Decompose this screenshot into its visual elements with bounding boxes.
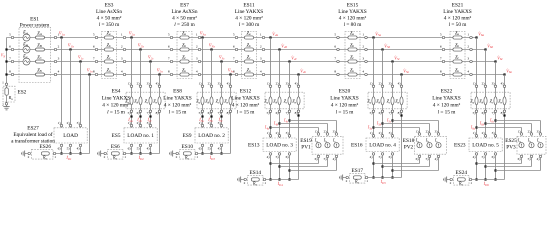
node V4a junction on line A (269, 36, 271, 38)
svg-text:1: 1 (121, 32, 123, 36)
svg-text:7): 7) (147, 111, 150, 115)
impedance Zn of ES20 (400, 97, 403, 105)
svg-text:ES10: ES10 (182, 144, 194, 150)
pin 5 of PV3 (bottom) (530, 155, 533, 158)
svg-text:6: 6 (168, 44, 170, 48)
svg-text:PV3: PV3 (506, 145, 516, 151)
node V1b junction on line B (69, 48, 71, 50)
svg-text:6): 6) (128, 146, 131, 150)
svg-text:İD5: İD5 (380, 179, 387, 185)
resistor Ru of ES2 (5, 88, 8, 95)
pin 5 of PV1 (bottom) (326, 155, 329, 158)
ground of ES24 (447, 179, 449, 181)
wire bottom neutral line of tap 1 (55, 153, 90, 155)
svg-text:1): 1) (518, 129, 521, 133)
node current I6c on drop C (494, 119, 496, 121)
pin 3 of ES11 (262, 60, 265, 63)
node V1c junction on line C (79, 60, 81, 62)
junction rail - line B (5, 48, 7, 50)
wire bus line A (7, 37, 477, 39)
svg-text:1): 1) (58, 121, 61, 125)
pin 2 of ES11 (262, 48, 265, 51)
svg-text:Żc: Żc (247, 54, 251, 60)
pin 1 of ES6 (123, 152, 126, 155)
svg-text:V̇4b: V̇4b (281, 43, 287, 49)
node V1a junction on line A (60, 36, 62, 38)
pin 7 of ES3 (95, 60, 98, 63)
pin 1 of load (top) (372, 135, 375, 138)
svg-text:1): 1) (128, 82, 131, 86)
svg-text:V̇3b: V̇3b (209, 43, 215, 49)
svg-text:4): 4) (295, 82, 298, 86)
pin 5 of load (bottom) (210, 144, 213, 147)
node current I3c on drop C (220, 115, 222, 117)
wire neutral drop of tap 3 (230, 75, 232, 154)
wire bottom neutral line of tap 5 (367, 177, 402, 179)
svg-text:2: 2 (28, 155, 30, 159)
svg-text:ĖA: ĖA (22, 30, 28, 36)
svg-text:2): 2) (67, 121, 70, 125)
wire phase A drop of tap 2 (131, 38, 133, 128)
svg-text:6): 6) (286, 155, 289, 159)
svg-text:ŻB: ŻB (37, 42, 41, 48)
svg-text:8: 8 (9, 70, 11, 74)
svg-text:Line YAKXS: Line YAKXS (163, 96, 192, 102)
impedance Zb of ES15 (348, 48, 357, 51)
pin 6 of load (bottom) (201, 144, 204, 147)
svg-text:3): 3) (537, 129, 540, 133)
pin 4 of load (bottom) (220, 144, 223, 147)
svg-text:2): 2) (137, 121, 140, 125)
pin 1 of PV1 (top) (317, 133, 320, 136)
wire load pin to bottom line (289, 155, 291, 180)
pin 4 of ES3 (123, 73, 126, 76)
svg-text:2: 2 (450, 181, 452, 185)
pin 2 of load (top) (69, 124, 72, 127)
svg-text:l = 15 m: l = 15 m (438, 109, 457, 115)
svg-text:1: 1 (196, 155, 198, 159)
svg-text:4 × 120 mm²: 4 × 120 mm² (339, 16, 367, 22)
pin 7 of ES21 (442, 60, 445, 63)
svg-text:Żn: Żn (182, 67, 186, 73)
impedance Zb of ES20 (381, 97, 384, 105)
current source Ib of PV2 (427, 143, 432, 148)
svg-text:l = 15 m: l = 15 m (237, 109, 256, 115)
svg-text:l = 80 m: l = 80 m (344, 22, 363, 28)
pin 5 of load (bottom) (139, 144, 142, 147)
svg-text:2: 2 (346, 179, 348, 183)
svg-text:ŻN: ŻN (37, 67, 42, 73)
svg-text:4): 4) (147, 146, 150, 150)
wire ES26 to ground (26, 153, 28, 155)
svg-text:Line YAKXS: Line YAKXS (235, 9, 264, 15)
impedance Za of ES12 (269, 97, 272, 105)
svg-text:1): 1) (473, 82, 476, 86)
svg-text:8): 8) (501, 111, 504, 115)
pin 3 of ES1 (54, 60, 57, 63)
svg-text:8): 8) (227, 111, 230, 115)
pin 6 of ES11 (235, 48, 238, 51)
svg-text:5: 5 (334, 32, 336, 36)
wire load pin to bottom line (476, 155, 478, 180)
svg-text:5): 5) (482, 155, 485, 159)
node current I2a on drop A (130, 115, 132, 117)
wire drop B to PV3 input 2 (486, 123, 532, 125)
svg-text:3: 3 (362, 56, 364, 60)
ground of ES6 (101, 153, 103, 155)
svg-text:5): 5) (426, 157, 429, 161)
svg-text:V̇6b: V̇6b (487, 43, 493, 49)
pin 1 of ES1 (54, 36, 57, 39)
node V5b junction on line B (381, 48, 383, 50)
svg-text:5): 5) (528, 157, 531, 161)
ground of ES26 (25, 153, 27, 155)
pin 5 of load (bottom) (484, 153, 487, 156)
svg-text:PV2: PV2 (404, 145, 414, 151)
svg-text:1: 1 (362, 32, 364, 36)
load box ES9 dashed outline (195, 128, 228, 143)
pin 2 of PV1 (top) (326, 133, 329, 136)
svg-text:İ6b: İ6b (479, 121, 485, 127)
svg-text:6: 6 (334, 44, 336, 48)
current source Ia of PV2 (417, 143, 422, 148)
svg-text:İa: İa (415, 138, 419, 144)
wire neutral drop of tap 4 (298, 75, 300, 180)
svg-text:Żc: Żc (216, 98, 220, 104)
wire load drop B to PV2 output (383, 166, 430, 168)
svg-text:2): 2) (276, 131, 279, 135)
svg-text:ES2: ES2 (18, 90, 27, 96)
svg-text:V̇6c: V̇6c (497, 55, 503, 61)
node V5c junction on line C (391, 60, 393, 62)
load box ES23 dashed outline (469, 138, 502, 152)
pin 8 of ES21 (442, 73, 445, 76)
pin 2 of ES6 (104, 152, 107, 155)
current source Ib of PV3 (529, 143, 534, 148)
pin 8 of ES7 (170, 73, 173, 76)
junction load-PV3 link A (475, 162, 477, 164)
pin 5 of ES7 (170, 36, 173, 39)
pin 3 of PV1 (top) (335, 133, 338, 136)
svg-text:4): 4) (267, 155, 270, 159)
impedance Zc of ES3 (104, 60, 113, 63)
svg-text:İD6: İD6 (483, 181, 490, 187)
pin 1 of load (top) (60, 124, 63, 127)
svg-text:ES7: ES7 (180, 2, 189, 8)
pv box ES19 PV1 dashed outline (312, 136, 343, 154)
svg-text:ES3: ES3 (105, 2, 114, 8)
svg-text:6: 6 (9, 45, 11, 49)
impedance Zn of ES11 (244, 73, 253, 76)
impedance Za of ES7 (180, 36, 189, 39)
svg-text:8): 8) (398, 111, 401, 115)
svg-text:3): 3) (492, 131, 495, 135)
impedance Zc of ES11 (244, 60, 253, 63)
svg-text:4 × 120 mm²: 4 × 120 mm² (331, 102, 359, 108)
pin 2 of ES21 (470, 48, 473, 51)
node current I6a on drop A (475, 126, 477, 128)
pin 8 of ES8 (229, 110, 232, 113)
pin 6 of ES3 (95, 48, 98, 51)
svg-text:2): 2) (426, 129, 429, 133)
svg-text:6): 6) (379, 111, 382, 115)
junction on bottom line (372, 176, 374, 178)
line segment box ES12 dashed outline (265, 92, 304, 109)
wire drop B to PV1 input 2 (280, 123, 328, 125)
svg-text:5: 5 (9, 33, 11, 37)
node current I4c on drop C (288, 119, 290, 121)
ground of ES14 (241, 179, 243, 181)
pin 6 of ES1 (11, 48, 14, 51)
svg-text:3): 3) (389, 131, 392, 135)
pin 5 of ES22 (475, 110, 478, 113)
impedance Zb of ES7 (180, 48, 189, 51)
impedance Zn of ES12 (297, 97, 300, 105)
pin 2 of ES20 (381, 85, 384, 88)
svg-text:4): 4) (398, 82, 401, 86)
impedance Zn of ES21 (453, 73, 462, 76)
pin 2 of load (top) (210, 124, 213, 127)
svg-text:Ru: Ru (8, 95, 13, 101)
svg-text:ES20: ES20 (339, 89, 351, 95)
svg-text:ES26: ES26 (40, 144, 52, 150)
svg-text:Żc: Żc (490, 98, 494, 104)
pin 4 of load (bottom) (475, 153, 478, 156)
svg-text:7: 7 (9, 57, 11, 61)
svg-text:ES22: ES22 (441, 89, 453, 95)
svg-text:3): 3) (77, 121, 80, 125)
source EB of ES1 (23, 46, 30, 53)
pin 1 of load (top) (130, 124, 133, 127)
svg-text:4): 4) (501, 82, 504, 86)
wire phase C drop of tap 4 (289, 62, 291, 139)
pin 8 of ES11 (235, 73, 238, 76)
svg-text:ES1: ES1 (30, 16, 39, 22)
svg-text:LOAD no. 2: LOAD no. 2 (198, 133, 225, 139)
svg-text:6): 6) (416, 157, 419, 161)
svg-text:7): 7) (218, 111, 221, 115)
wire ES6 to ground (102, 153, 104, 155)
wire phase B drop of tap 6 (485, 50, 487, 139)
load box ES5 dashed outline (124, 128, 157, 143)
pin 1 of ES20 (372, 85, 375, 88)
wire neutral drop of tap 5 (401, 75, 403, 178)
svg-text:8: 8 (168, 69, 170, 73)
svg-text:1): 1) (199, 121, 202, 125)
svg-text:Power system: Power system (20, 23, 50, 29)
junction load-PV2 link C (391, 169, 393, 171)
svg-text:1): 1) (416, 129, 419, 133)
junction on bottom line (288, 178, 290, 180)
pin 4 of ES4 (158, 85, 161, 88)
svg-text:5: 5 (233, 32, 235, 36)
svg-text:ES21: ES21 (452, 2, 464, 8)
svg-text:8): 8) (295, 111, 298, 115)
wire load pin to bottom line (485, 155, 487, 180)
impedance Zn of ES4 (158, 97, 161, 105)
wire load drop B to PV1 output (280, 166, 328, 168)
junction on neutral drop of tap 4 (297, 114, 299, 116)
pin 3 of ES22 (494, 85, 497, 88)
pin 1 of load (top) (201, 124, 204, 127)
pin 8 of ES1 (11, 73, 14, 76)
svg-text:Equivalent load of: Equivalent load of (13, 131, 52, 138)
svg-text:Line YAKXS: Line YAKXS (231, 96, 260, 102)
pin 6 of ES21 (442, 48, 445, 51)
svg-text:LOAD no. 4: LOAD no. 4 (369, 143, 396, 149)
wire bottom neutral line of tap 4 (265, 179, 299, 181)
svg-text:2): 2) (528, 129, 531, 133)
svg-text:ES27: ES27 (27, 126, 39, 132)
svg-text:Ża: Ża (455, 30, 459, 36)
svg-text:l = 15 m: l = 15 m (336, 109, 355, 115)
source EA of ES1 (23, 34, 30, 41)
current source Ia of PV1 (316, 143, 321, 148)
svg-text:ES24: ES24 (456, 170, 468, 176)
svg-text:2): 2) (324, 129, 327, 133)
pin 2 of ES8 (210, 85, 213, 88)
svg-text:ES6: ES6 (111, 144, 120, 150)
pin 6 of ES22 (484, 110, 487, 113)
svg-text:V̇2n: V̇2n (157, 68, 163, 74)
impedance Zc of ES4 (149, 97, 152, 105)
pin 8 of ES22 (503, 110, 506, 113)
svg-text:4 × 120 mm²: 4 × 120 mm² (433, 102, 461, 108)
svg-text:l = 50 m: l = 50 m (449, 22, 468, 28)
wire phase B drop of tap 3 (211, 50, 213, 128)
svg-text:3): 3) (218, 82, 221, 86)
line segment box ES20 dashed outline (368, 92, 407, 109)
pin 6 of ES7 (170, 48, 173, 51)
svg-text:ES13: ES13 (248, 143, 260, 149)
svg-text:V̇5c: V̇5c (394, 55, 400, 61)
svg-text:V̇2a: V̇2a (129, 31, 135, 37)
pin 5 of ES4 (130, 110, 133, 113)
junction on bottom line (278, 178, 280, 180)
impedance Zn of ES3 (104, 73, 113, 76)
wire drop A to PV1 input 1 (271, 127, 319, 129)
pin 1 of ES3 (123, 36, 126, 39)
pin 5 of PV2 (bottom) (428, 155, 431, 158)
svg-text:V̇N: V̇N (1, 53, 6, 59)
svg-text:5: 5 (168, 32, 170, 36)
junction on neutral drop of tap 6 (503, 114, 505, 116)
svg-text:ĖC: ĖC (22, 54, 29, 60)
svg-text:5): 5) (324, 157, 327, 161)
node V2n junction on line N (158, 73, 160, 75)
pin 3 of ES20 (391, 85, 394, 88)
node V2b junction on line B (139, 48, 141, 50)
wire load pin to bottom line (150, 147, 152, 154)
svg-text:2: 2 (196, 44, 198, 48)
wire phase A drop of tap 1 (61, 38, 63, 128)
pin 3 of ES3 (123, 60, 126, 63)
pin 5 of load (bottom) (381, 153, 384, 156)
svg-text:5): 5) (128, 111, 131, 115)
pin 6 of ES20 (381, 110, 384, 113)
svg-text:ES8: ES8 (173, 89, 182, 95)
impedance Zn of ES8 (229, 97, 232, 105)
pin 1 of ES22 (475, 85, 478, 88)
svg-text:LOAD no. 1: LOAD no. 1 (127, 133, 154, 139)
pin 2 of ES12 (278, 85, 281, 88)
wire load pin to bottom line (140, 147, 142, 154)
ground of ES17 (343, 177, 345, 179)
svg-text:3): 3) (435, 129, 438, 133)
pin 7 of ES15 (337, 60, 340, 63)
svg-text:l = 15 m: l = 15 m (169, 109, 188, 115)
wire bottom neutral line of tap 3 (197, 153, 231, 155)
impedance Zc of ES22 (494, 97, 497, 105)
svg-text:6: 6 (440, 44, 442, 48)
wire phase B drop of tap 5 (382, 50, 384, 139)
pin 2 of ES7 (198, 48, 201, 51)
svg-text:V̇1c: V̇1c (78, 55, 84, 61)
impedance Zb of ES4 (139, 97, 142, 105)
pin 5 of load (bottom) (69, 144, 72, 147)
svg-text:V̇1n: V̇1n (87, 68, 93, 74)
pin 3 of load (top) (79, 124, 82, 127)
junction load-PV1 link C (288, 169, 290, 171)
resistor Ru of ES14 (251, 178, 259, 181)
wire ES24 to ground (448, 179, 450, 181)
svg-text:Żb: Żb (350, 42, 354, 48)
junction load-PV1 link B (278, 165, 280, 167)
svg-text:Żb: Żb (182, 42, 186, 48)
svg-text:ES15: ES15 (347, 2, 359, 8)
pin 1 of ES21 (470, 36, 473, 39)
wire load drop A to PV3 output (477, 163, 522, 165)
wire ES2 lower lead (6, 95, 8, 103)
pin 7 of ES1 (11, 60, 14, 63)
junction on bottom line (494, 178, 496, 180)
svg-text:5: 5 (440, 32, 442, 36)
node V1n junction on line N (88, 73, 90, 75)
svg-text:V̇4a: V̇4a (272, 31, 278, 37)
svg-text:4): 4) (333, 157, 336, 161)
node V5a junction on line A (372, 36, 374, 38)
pin 6 of ES15 (337, 48, 340, 51)
svg-text:2): 2) (276, 82, 279, 86)
pin 8 of ES20 (400, 110, 403, 113)
impedance Zc of ES7 (180, 60, 189, 63)
pin 5 of ES3 (95, 36, 98, 39)
pin 1 of PV2 (top) (418, 133, 421, 136)
svg-text:2): 2) (379, 131, 382, 135)
junction on bottom line (130, 152, 132, 154)
svg-text:3): 3) (147, 121, 150, 125)
svg-text:V̇5n: V̇5n (403, 68, 409, 74)
svg-text:5): 5) (199, 111, 202, 115)
pin 3 of ES8 (220, 85, 223, 88)
svg-text:6): 6) (137, 111, 140, 115)
pin 3 of ES4 (149, 85, 152, 88)
wire load pin to bottom line (373, 155, 375, 178)
node current I4a on drop A (269, 126, 271, 128)
node V2c junction on line C (149, 60, 151, 62)
svg-text:Ża: Ża (246, 30, 250, 36)
wire load pin to bottom line (61, 147, 63, 154)
pin 7 of ES20 (391, 110, 394, 113)
svg-text:3: 3 (467, 56, 469, 60)
wire phase C drop of tap 5 (392, 62, 394, 139)
svg-text:6): 6) (492, 155, 495, 159)
svg-text:3): 3) (147, 82, 150, 86)
wire load pin to bottom line (221, 147, 223, 154)
svg-text:V̇1a: V̇1a (59, 31, 65, 37)
svg-text:V̇2b: V̇2b (138, 43, 144, 49)
pin 4 of PV3 (bottom) (539, 155, 542, 158)
